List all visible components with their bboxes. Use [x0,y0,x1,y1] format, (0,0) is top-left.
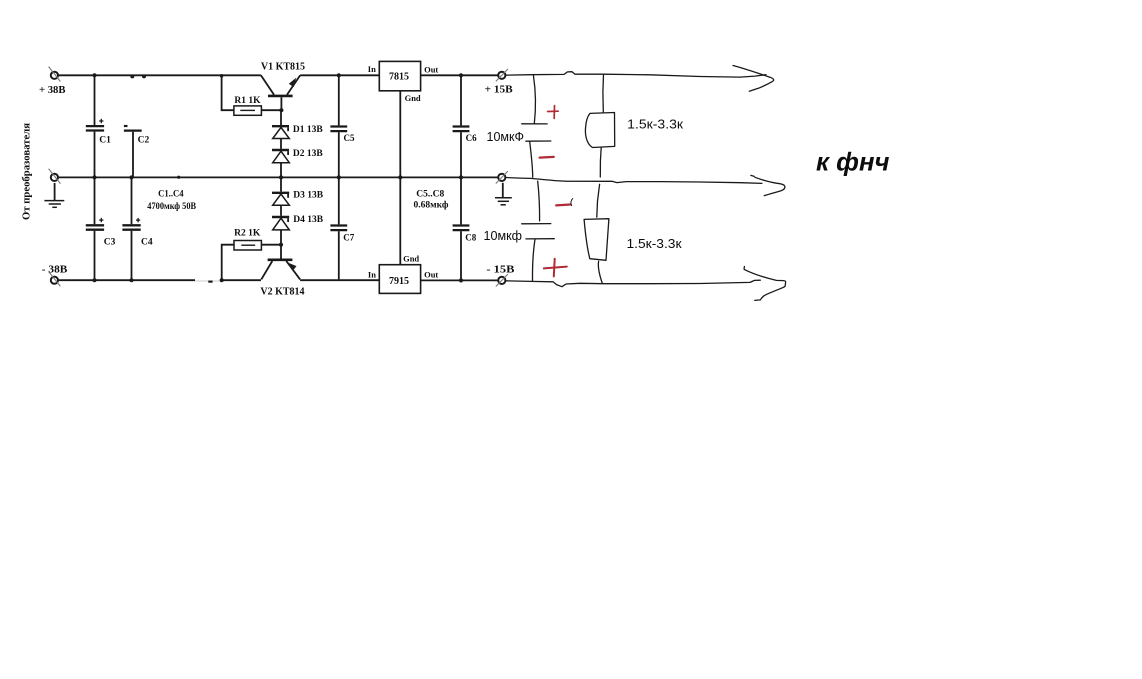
wire R1 branch from top rail [222,75,234,110]
node mid rail / C2 [130,175,134,179]
zener diode D3 [272,178,289,205]
red plus top [548,106,559,119]
wire bottom rail right [421,279,498,281]
svg-text:7815: 7815 [389,72,409,83]
freehand section [484,66,786,301]
wire mid rail [58,176,498,178]
terminal -15V [496,274,508,286]
terminal GND right [496,171,508,183]
wire bottom rail mid [222,279,261,281]
node top rail / C6 [459,73,463,77]
wire R2 to base node [261,244,281,246]
wire gap dash [208,281,212,283]
svg-text:0.68мкф: 0.68мкф [414,200,449,211]
svg-text:От преобразователя: От преобразователя [22,122,33,220]
node mid rail / C5 C7 [337,175,341,179]
svg-text:C8: C8 [465,233,476,243]
node mid rail / C1 [93,175,97,179]
node mid rail / C6 C8 [459,175,463,179]
node bottom rail / C8 [459,278,463,282]
zener diode D4 [272,205,289,245]
svg-text:1.5к-3.3к: 1.5к-3.3к [627,117,683,132]
node mid rail / zeners [279,175,283,179]
terminal +15V [496,69,508,81]
svg-text:C1..C4: C1..C4 [158,190,184,200]
black curl artifact [571,199,573,206]
terminal GND left [49,169,61,184]
svg-text:к фнч: к фнч [816,146,890,176]
svg-text:V2 KT814: V2 KT814 [260,287,304,298]
svg-text:Gnd: Gnd [405,93,421,103]
svg-text:D4 13В: D4 13В [293,215,323,225]
regulator U1 7815 [379,61,420,90]
svg-text:C3: C3 [104,237,116,247]
node bottom rail / R2 branch [220,278,224,282]
svg-text:C6: C6 [466,133,477,143]
svg-text:+ 38В: + 38В [39,84,66,96]
svg-text:- 15В: - 15В [486,264,515,276]
svg-text:1.5к-3.3к: 1.5к-3.3к [627,236,682,251]
capacitor C2 (partially erased) [124,125,142,177]
capacitor C4 [122,178,140,279]
svg-text:C2: C2 [138,135,150,145]
svg-text:- 38В: - 38В [42,264,68,276]
capacitor C5 [330,75,347,176]
capacitor C8 [453,178,470,280]
resistor R2 [234,241,261,251]
regulator U2 7915 [379,265,420,294]
node bottom rail / C4 [130,278,134,282]
arrow middle [751,175,785,195]
svg-text:In: In [368,64,376,74]
svg-text:D3 13В: D3 13В [293,191,323,201]
wire R1 to base node [261,109,281,111]
capacitor 10uF bottom [522,181,555,281]
capacitor 10uF top [522,75,551,177]
terminal +38V [49,67,61,82]
node remnant dot 2 [142,74,146,78]
svg-text:4700мкф 50В: 4700мкф 50В [147,201,196,212]
arrow top [733,66,774,92]
transistor V2 [261,245,300,280]
zener diode D1 [272,110,289,138]
svg-text:Gnd: Gnd [403,254,419,264]
svg-text:R2 1K: R2 1K [234,229,261,239]
transistor V1 [261,75,300,110]
wire bottom rail under 7915 [300,279,379,281]
node remnant dot 1 [130,74,134,78]
svg-text:Out: Out [424,269,438,279]
red plus bottom [544,259,567,277]
capacitor C6 [453,75,470,176]
wire R2 branch [222,245,234,281]
capacitor C7 [330,178,347,279]
svg-text:Out: Out [424,64,438,74]
svg-text:C5: C5 [344,133,355,143]
svg-text:7915: 7915 [389,276,409,287]
resistor R1 [234,106,262,115]
red minus middle [556,203,570,206]
node R1 / V1 base [279,108,283,112]
node R2 / V2 base [279,243,283,247]
wire gnd output [506,178,762,184]
svg-text:C5..C8: C5..C8 [416,189,444,199]
resistor load bottom [584,184,609,283]
arrow bottom [744,267,786,301]
svg-text:C7: C7 [343,233,354,243]
svg-text:V1 KT815: V1 KT815 [261,61,305,72]
node top rail / C5 [337,73,341,77]
wire faint gap remnant [195,280,221,282]
wire top rail left [58,74,261,76]
ground left [44,183,64,207]
node top rail / R1 branch [220,74,224,78]
ground right [495,183,512,205]
wire top rail right [421,74,498,76]
node mid rail remnant [177,176,180,179]
red minus top [540,156,554,159]
svg-text:10мкФ: 10мкФ [487,129,525,144]
wire +15 output [506,72,766,77]
wire -15 output [506,280,761,287]
svg-text:R1 1K: R1 1K [234,96,261,106]
zener diode D2 [272,139,289,177]
capacitor C1 [86,75,104,176]
node mid rail / regulators gnd [398,175,402,179]
svg-text:10мкф: 10мкф [484,228,523,243]
svg-text:D1 13В: D1 13В [293,125,323,135]
svg-text:C1: C1 [99,135,111,145]
svg-text:D2 13В: D2 13В [293,149,323,159]
wire bottom rail left [58,279,195,281]
node bottom rail / C3 [93,278,97,282]
svg-text:C4: C4 [141,237,153,247]
wire top rail middle [300,74,379,76]
capacitor C3 [86,178,104,279]
svg-text:In: In [368,269,376,279]
terminal -38V [49,272,61,287]
node top rail / C1 [93,73,97,77]
wire regulators gnd [399,91,401,265]
resistor load top [585,74,614,177]
svg-text:+ 15В: + 15В [485,84,514,96]
